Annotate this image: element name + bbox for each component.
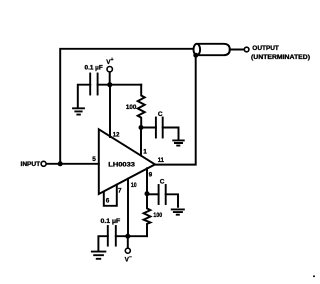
svg-text:OUTPUT: OUTPUT: [252, 45, 279, 52]
svg-text:−: −: [129, 255, 132, 261]
svg-text:10: 10: [131, 182, 137, 189]
svg-text:0.1 µF: 0.1 µF: [85, 65, 104, 71]
svg-text:0.1 µF: 0.1 µF: [101, 219, 121, 225]
svg-text:100: 100: [153, 213, 162, 219]
svg-text:7: 7: [118, 188, 122, 195]
svg-text:1: 1: [143, 149, 147, 156]
svg-text:C: C: [158, 111, 163, 118]
svg-text:INPUT: INPUT: [21, 161, 41, 168]
svg-text:12: 12: [113, 131, 120, 138]
svg-text:C: C: [160, 178, 165, 185]
svg-text:100: 100: [126, 104, 137, 111]
svg-text:+: +: [111, 57, 114, 63]
svg-text:9: 9: [149, 171, 153, 178]
svg-text:11: 11: [158, 157, 165, 164]
svg-text:LH0033: LH0033: [108, 162, 135, 169]
svg-text:(UNTERMINATED): (UNTERMINATED): [251, 54, 310, 61]
svg-text:6: 6: [106, 198, 110, 205]
svg-text:5: 5: [92, 156, 96, 163]
